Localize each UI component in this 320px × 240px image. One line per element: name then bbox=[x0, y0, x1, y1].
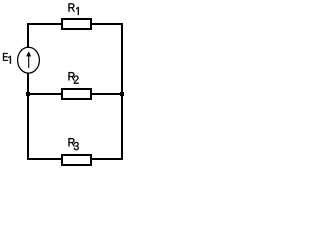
resistor R1 bbox=[61, 18, 92, 30]
junction: right middle node bbox=[120, 92, 124, 96]
wire: bottom row left of R3 bbox=[27, 158, 61, 160]
label R2 bbox=[68, 72, 78, 83]
wire: left vertical lower segment (E1 bottom down to bottom-left corner) bbox=[27, 73, 29, 160]
wire: right vertical bus bbox=[121, 23, 123, 160]
source E1 circle bbox=[18, 47, 40, 73]
wire: bottom row right of R3 bbox=[92, 158, 121, 160]
wire: left vertical upper segment (top-left corner down to E1 top) bbox=[27, 23, 29, 48]
label E1 bbox=[3, 53, 11, 64]
wire: middle row left of R2 bbox=[27, 93, 61, 95]
junction: left middle node bbox=[26, 92, 30, 96]
label R3 bbox=[68, 138, 78, 150]
wire: top row left of R1 bbox=[27, 23, 61, 25]
wire: middle row right of R2 bbox=[92, 93, 121, 95]
resistor R2 bbox=[61, 88, 92, 100]
source E1 arrow bbox=[26, 51, 31, 68]
resistor R3 bbox=[61, 154, 92, 166]
wire: top row right of R1 bbox=[92, 23, 123, 25]
label R1 bbox=[68, 3, 78, 15]
